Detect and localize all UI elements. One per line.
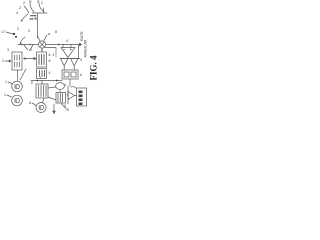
connector pins <box>79 91 83 94</box>
wire leader <box>6 32 13 34</box>
junction <box>29 44 30 45</box>
motor M3 glyph <box>39 105 43 109</box>
svg-text:a: a <box>48 32 50 36</box>
svg-text:1: 1 <box>5 80 7 84</box>
transistor Q1 <box>30 3 34 12</box>
wire <box>64 66 74 70</box>
wire arrow into box <box>24 57 37 59</box>
block 46 inner left <box>64 72 69 77</box>
leader <box>8 82 12 84</box>
svg-text:2: 2 <box>41 1 43 5</box>
svg-text:2: 2 <box>19 6 21 10</box>
arrow on wire <box>56 79 58 81</box>
block 44 (hatched box) <box>36 84 48 98</box>
svg-text:3: 3 <box>28 29 30 33</box>
wire mixer to box <box>41 48 43 52</box>
block 34 innards <box>40 71 45 77</box>
dashed vert <box>55 48 57 57</box>
wire to mixer right <box>44 35 47 41</box>
wire horizontal low <box>31 80 62 82</box>
node B <box>13 33 15 35</box>
svg-text:17: 17 <box>1 30 5 34</box>
wire diag coil out <box>61 103 66 108</box>
node mark <box>15 36 17 38</box>
wire to mixer <box>38 36 41 41</box>
wire from left box down <box>17 70 19 81</box>
motor M1 glyph <box>15 84 19 89</box>
svg-text:4: 4 <box>66 39 68 43</box>
transistor Q3 <box>20 37 25 44</box>
motor M1 (circle) <box>12 81 23 92</box>
svg-text:4: 4 <box>64 83 66 87</box>
svg-text:5: 5 <box>64 104 66 108</box>
block 36 (center box) <box>37 52 47 67</box>
svg-text:2: 2 <box>2 59 4 63</box>
leader <box>71 87 76 88</box>
svg-text:3: 3 <box>7 48 9 52</box>
wire down <box>69 79 71 86</box>
motor M3 (circle) <box>36 103 46 113</box>
wire diag <box>48 97 56 100</box>
motor M2 (circle) <box>12 95 23 106</box>
node A <box>21 21 23 23</box>
wire tap down <box>78 45 80 59</box>
arrow on wire <box>36 79 38 81</box>
svg-text:R: R <box>37 0 40 4</box>
connector J1 <box>77 88 87 106</box>
wire diagonal <box>20 69 26 80</box>
wire horizontal mid <box>18 44 39 46</box>
wire mixer lower right <box>45 47 56 49</box>
pickoff oval <box>56 83 65 90</box>
mixer X1 <box>38 41 45 48</box>
wire bus mid <box>60 58 80 60</box>
svg-text:6: 6 <box>80 73 82 77</box>
svg-text:6: 6 <box>49 59 51 63</box>
leader <box>7 95 12 97</box>
wire leader <box>5 60 11 62</box>
wire box44 to oval <box>48 87 56 88</box>
svg-text:8: 8 <box>55 30 57 34</box>
transistor Q5 <box>30 45 34 51</box>
coil hatch <box>58 94 63 103</box>
svg-text:E: E <box>31 81 34 85</box>
diode D2 <box>71 59 79 66</box>
wire box-bottom to motor <box>43 98 45 103</box>
wire bus top <box>32 12 47 14</box>
op-amp feeds <box>63 45 71 48</box>
coil (hatched cylinder) <box>56 93 66 104</box>
wire oval down <box>59 90 61 93</box>
svg-text:FIG. 4: FIG. 4 <box>88 55 98 81</box>
wire box feed <box>41 81 43 85</box>
wire output of mixer <box>46 44 74 46</box>
wire <box>43 8 45 13</box>
wire vert right <box>67 86 69 104</box>
block 30 innards <box>15 55 20 67</box>
svg-text:ANGULAR: ANGULAR <box>84 39 88 57</box>
svg-text:2: 2 <box>23 1 25 5</box>
transistor Q2 <box>39 3 44 12</box>
svg-text:2: 2 <box>30 48 32 52</box>
svg-text:1: 1 <box>4 93 6 97</box>
wire <box>24 6 29 13</box>
block 36 innards <box>39 55 44 65</box>
amp U2 <box>68 92 75 100</box>
svg-text:4: 4 <box>16 11 18 15</box>
svg-text:R: R <box>29 0 32 4</box>
svg-text:2: 2 <box>17 27 19 31</box>
svg-text:B: B <box>67 108 70 112</box>
svg-text:E: E <box>24 57 27 61</box>
svg-text:4: 4 <box>80 58 82 62</box>
svg-text:RATE: RATE <box>80 31 84 41</box>
block 46 inner right <box>71 72 76 77</box>
wire to connector <box>75 95 77 97</box>
op-amp U1 <box>61 48 75 58</box>
arrow out <box>74 43 82 45</box>
arrow down <box>53 104 55 114</box>
block 30 (left box) <box>12 52 22 70</box>
junction <box>21 44 22 45</box>
svg-text:4: 4 <box>53 53 55 57</box>
block 46 (dual box) <box>62 70 78 79</box>
svg-text:ar E: ar E <box>30 16 38 21</box>
block 44 hatch <box>39 86 47 97</box>
diode D1 <box>61 59 69 66</box>
block 34 (second center box) <box>37 69 47 79</box>
svg-text:t: t <box>40 76 41 80</box>
svg-text:8: 8 <box>29 101 31 105</box>
motor M2 glyph <box>15 98 19 103</box>
transistor Q4 <box>24 45 28 50</box>
wire <box>21 14 28 21</box>
svg-text:4: 4 <box>49 71 51 75</box>
svg-text:8: 8 <box>49 53 51 57</box>
wire vertical center <box>37 13 39 38</box>
leader curve <box>32 103 36 106</box>
